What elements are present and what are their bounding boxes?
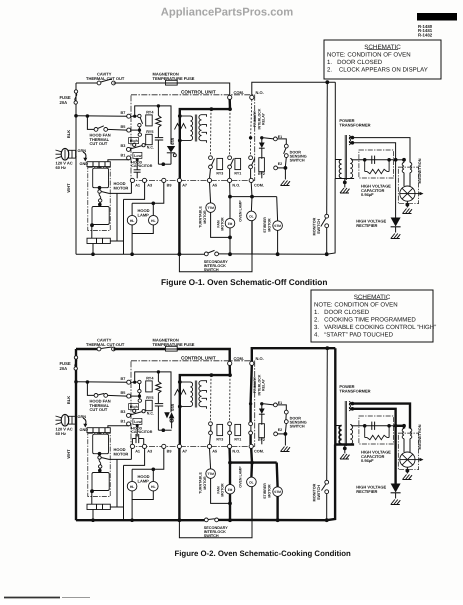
- wire O-2 TTM to FM column: [211, 478, 230, 503]
- terminal E2 O-2: [274, 432, 278, 436]
- pin B1 O-1: [127, 156, 131, 160]
- switch cavity thermal cut-out O-1: [97, 81, 101, 85]
- svg-text:B1: B1: [121, 154, 126, 158]
- label Low boxed O-2: [133, 418, 142, 424]
- svg-text:SWITCH: SWITCH: [317, 219, 321, 234]
- pin B5 O-2: [127, 394, 131, 398]
- svg-text:MOTOR: MOTOR: [114, 185, 129, 190]
- ground wire GRN arrow O-2: [83, 418, 86, 425]
- ground magnetron O-1: [403, 209, 413, 214]
- low voltage transformer primary O-2: [178, 380, 182, 384]
- resistor in control unit O-1: [157, 106, 159, 116]
- wire O-2 A7 heavy column below control unit: [178, 449, 180, 521]
- relay contact RY3 O-1: [209, 156, 213, 160]
- control unit box O-2: [131, 361, 255, 447]
- pin N.O. top O-1: [250, 95, 254, 99]
- svg-text:E2: E2: [278, 428, 282, 432]
- wire O-2 loop below bus to oven lamp: [179, 520, 252, 538]
- contact High selector O-1: [133, 143, 136, 146]
- wire O-1 filament second lead: [351, 141, 355, 145]
- scan artifact bottom edge line: [4, 597, 60, 599]
- svg-text:RELAY: RELAY: [262, 378, 266, 390]
- diode primary interlock O-2: [261, 404, 263, 409]
- wire O-1 drop to RY1 contact: [229, 109, 231, 156]
- magnetron dashed box O-1: [398, 167, 418, 204]
- wire O-1 to E1: [264, 138, 274, 139]
- wire O-1 right rail to power transformer: [334, 82, 336, 178]
- resistor in control unit O-2: [157, 372, 159, 382]
- ground chassis at E2 O-2: [281, 447, 291, 452]
- svg-text:SWITCH: SWITCH: [317, 485, 321, 500]
- ground magnetron O-2: [403, 475, 413, 480]
- relay coil RY3 small O-1: [217, 158, 223, 169]
- svg-text:1. DOOR CLOSED: 1. DOOR CLOSED: [314, 309, 370, 316]
- high voltage rectifier diode O-1: [391, 218, 401, 227]
- contact RY4 O-2: [138, 380, 141, 383]
- wire O-1 hood motor right lead: [110, 240, 123, 242]
- wire O-1 N.O. pin drop to RY2 contact: [251, 100, 252, 138]
- svg-text:OVEN LAMP: OVEN LAMP: [239, 200, 243, 222]
- svg-text:N.O.: N.O.: [232, 450, 240, 454]
- svg-text:20A: 20A: [60, 100, 68, 105]
- svg-text:TTM: TTM: [207, 472, 214, 476]
- wire O-2 N.O. to right rail: [252, 348, 335, 361]
- wire O-2 stirrer column: [276, 463, 279, 487]
- pin N.O. bottom O-1: [228, 178, 232, 182]
- svg-text:SWITCH: SWITCH: [204, 268, 219, 272]
- hood motor upper winding O-1: [99, 166, 101, 168]
- pin COM. bottom O-1: [249, 178, 253, 182]
- relay contact RY1 O-1: [228, 156, 232, 160]
- power transformer secondary coil O-1: [350, 159, 352, 179]
- wire O-1 STM to bus: [277, 230, 279, 254]
- wire O-1 resistor to capacitor: [157, 127, 159, 137]
- svg-text:RY3: RY3: [216, 172, 223, 176]
- pin A7 bottom O-1: [177, 178, 181, 182]
- magnetron tube O-1: [400, 186, 415, 201]
- svg-text:B7: B7: [121, 377, 126, 381]
- AC plug 120V O-1: [56, 150, 62, 152]
- svg-text:NOTE: CONDITION OF OVEN: NOTE: CONDITION OF OVEN: [327, 51, 411, 58]
- wire O-1 drop to RY3 contact: [210, 109, 213, 156]
- terminal block noise filter O-1: [87, 162, 110, 167]
- label Low boxed O-1: [133, 152, 142, 158]
- svg-text:CONTROL UNIT: CONTROL UNIT: [181, 90, 216, 95]
- power transformer secondary coil O-2: [350, 425, 352, 445]
- svg-text:RECTIFIER: RECTIFIER: [356, 223, 377, 228]
- transfer contact on B5 row O-2: [138, 389, 141, 392]
- svg-text:B7: B7: [121, 111, 126, 115]
- wire O-1 HV rectifier column: [395, 160, 397, 218]
- wire O-1 door switch to E2 node: [284, 158, 287, 167]
- wire RY1 contact to pin O-2: [229, 435, 231, 445]
- wire O-1 A3 drop to bus: [123, 199, 125, 254]
- svg-text:0.94µF: 0.94µF: [361, 458, 374, 463]
- pin B1 O-2: [127, 422, 131, 426]
- wire O-1 monitor switch column: [326, 82, 329, 214]
- stirrer motor STM O-1: [273, 221, 283, 231]
- low voltage transformer windings O-1: [180, 115, 191, 117]
- wire O-1 A5 column to turntable motor: [210, 183, 211, 203]
- svg-text:N.O.: N.O.: [256, 90, 264, 95]
- low voltage transformer secondary taps O-2: [202, 381, 207, 383]
- pin B7 O-1: [127, 114, 131, 118]
- svg-text:High: High: [130, 405, 138, 409]
- wire O-2 B1 to hood motor feed: [108, 426, 129, 428]
- wire O-2 to E1: [264, 404, 274, 405]
- wire O-1 heavy COM drop: [180, 100, 230, 179]
- relay coil RY5 O-2: [146, 400, 153, 410]
- wire O-1 monitor switch to bus: [326, 228, 328, 255]
- wire O-2 SSR gate return: [158, 429, 171, 431]
- wire O-2 A5 column to turntable motor: [210, 449, 211, 469]
- pin N.O. top O-2: [250, 361, 254, 365]
- wire O-2 hood fan to B5: [108, 394, 127, 397]
- switch hood fan thermal cut out O-2: [94, 394, 98, 398]
- wire O-2 E1 to door switch: [277, 405, 286, 410]
- svg-text:LAMP: LAMP: [138, 212, 150, 217]
- wire O-2 HL2 feed: [152, 469, 154, 481]
- wire O-1 E2 node to chassis: [284, 168, 286, 180]
- wire O-1 TTM to FM column: [211, 212, 230, 237]
- svg-text:STM: STM: [274, 490, 281, 494]
- schematic note box O-1: [324, 40, 441, 79]
- svg-text:60 Hz: 60 Hz: [56, 165, 66, 170]
- hood motor switch output lead to A1 O-2: [101, 458, 131, 460]
- wire O-2 internal top rail to SSR: [158, 372, 171, 410]
- hood motor dashed box O-2: [88, 433, 110, 496]
- svg-text:3. VARIABLE COOKING CONTROL: 3. VARIABLE COOKING CONTROL “HIGH”: [314, 324, 436, 331]
- terminal E1 O-1: [274, 137, 278, 141]
- capacitor hood capacitor O-1: [136, 160, 138, 170]
- svg-text:RY5: RY5: [146, 396, 153, 400]
- relay coil RY4 O-2: [146, 381, 153, 392]
- svg-text:B5: B5: [121, 125, 126, 129]
- svg-text:MOTOR: MOTOR: [267, 218, 271, 232]
- svg-text:RELAY: RELAY: [262, 112, 266, 124]
- svg-text:CAPACITOR: CAPACITOR: [131, 430, 152, 434]
- relay contact RY1 O-2: [228, 422, 232, 426]
- wire O-2 transformer bottom bar: [335, 443, 354, 445]
- SSR triac O-2: [164, 412, 170, 418]
- wire O-2 B7 row from rail: [76, 381, 127, 383]
- wire RY2 contact to pin O-2: [249, 435, 251, 445]
- svg-text:High: High: [130, 139, 138, 143]
- hood motor bottom lead O-1: [90, 223, 94, 227]
- resistor bleeder in HV box O-2: [364, 426, 366, 438]
- svg-text:OL: OL: [249, 481, 253, 485]
- wire O-1 stirrer column: [276, 197, 279, 221]
- svg-text:B3: B3: [121, 410, 126, 414]
- svg-text:60 Hz: 60 Hz: [56, 431, 66, 436]
- pin B5 O-1: [127, 128, 131, 132]
- pin A1 bottom O-1: [130, 178, 134, 182]
- wire O-2 filament top lead: [351, 402, 355, 406]
- wire O-1 transformer to bus: [327, 179, 335, 255]
- wire O-1 transformer bottom bar: [335, 178, 354, 180]
- hood lamp HL1 O-1: [127, 215, 137, 225]
- wire O-1 internal top rail to SSR: [158, 106, 171, 144]
- wire O-1 B5 pin to contact: [131, 129, 138, 131]
- wire O-1 motor top rail: [230, 196, 277, 198]
- wire O-2 filament second lead: [351, 407, 355, 411]
- svg-text:MAGNETRON: MAGNETRON: [418, 424, 422, 449]
- wire O-1 B3 to N.C. contact: [130, 145, 143, 149]
- power transformer primary coil O-2: [339, 426, 341, 445]
- wire O-2 resistor to capacitor: [157, 393, 159, 403]
- svg-text:0.94µF: 0.94µF: [361, 192, 374, 197]
- svg-text:A5: A5: [212, 184, 217, 188]
- svg-text:Low: Low: [134, 420, 141, 424]
- svg-text:R-1482: R-1482: [418, 33, 433, 38]
- svg-text:RY3: RY3: [216, 438, 223, 442]
- wire O-2 drop to RY3 contact: [210, 375, 213, 422]
- svg-text:WHT: WHT: [66, 183, 71, 193]
- SSR triac O-1: [167, 146, 175, 153]
- terminal E2 O-1: [274, 166, 278, 170]
- ground transformer O-1: [344, 182, 346, 187]
- svg-text:MOTOR: MOTOR: [221, 483, 225, 497]
- wire O-2 HV line secondary to capacitor box: [351, 425, 359, 427]
- wire RY3 contact to pin O-2: [210, 435, 211, 445]
- wire O-2 top line to cavity thermal cut-out: [76, 348, 99, 350]
- svg-text:A1: A1: [135, 450, 140, 454]
- wire O-1 magnetron cathode to ground: [406, 201, 408, 207]
- magnetron antenna arrow O-2: [415, 459, 423, 461]
- pin A1 bottom O-2: [130, 444, 134, 448]
- wire O-1 top line to cavity thermal cut-out: [76, 82, 99, 84]
- hood motor centrifugal switch O-2: [98, 452, 102, 456]
- ground transformer O-2: [344, 448, 346, 453]
- turntable motor TTM O-2: [206, 469, 216, 479]
- svg-text:MOTOR: MOTOR: [114, 451, 129, 456]
- svg-text:RECTIFIER: RECTIFIER: [356, 489, 377, 494]
- svg-text:HL: HL: [151, 219, 156, 223]
- capacitor in control unit O-1: [155, 137, 163, 139]
- svg-text:MOTOR: MOTOR: [221, 217, 225, 231]
- pin N.O. bottom O-2: [228, 444, 232, 448]
- svg-text:TRANSFORMER: TRANSFORMER: [339, 389, 370, 394]
- svg-text:2. CLOCK APPEARS ON DISPLAY: 2. CLOCK APPEARS ON DISPLAY: [327, 66, 428, 73]
- svg-text:A3: A3: [147, 450, 152, 454]
- ground HV rectifier O-2: [391, 500, 401, 505]
- wire O-1 hood motor to bus: [92, 244, 94, 255]
- wire O-2 N.O. column to fan motor: [228, 449, 231, 463]
- wire O-2 magnetron cathode to ground: [406, 467, 408, 473]
- wire O-1 A7 heavy column below control unit: [178, 183, 180, 255]
- svg-text:THERMAL CUT-OUT: THERMAL CUT-OUT: [86, 342, 125, 347]
- pin B9 bottom O-1: [162, 178, 166, 182]
- svg-text:SSR: SSR: [171, 403, 175, 411]
- wire O-1 HL2 feed: [152, 203, 154, 215]
- wire O-1 hood fan branch: [87, 116, 94, 129]
- wire O-1 FM to bus: [229, 228, 231, 254]
- svg-text:COM.: COM.: [234, 90, 244, 95]
- magnetron temperature fuse O-2: [166, 346, 178, 351]
- wire O-2 monitor switch to bus: [326, 494, 328, 521]
- wire RY2 contact to pin O-1: [250, 169, 252, 179]
- wire O-1 HL1 feed: [131, 203, 133, 215]
- svg-text:RY5: RY5: [146, 130, 153, 134]
- wire O-1 HV line to magnetron: [393, 159, 404, 161]
- ground HV rectifier O-1: [391, 234, 401, 239]
- wire O-1 B1 to hood motor feed: [108, 160, 129, 162]
- svg-text:HL: HL: [130, 485, 135, 489]
- magnetron dashed box O-2: [398, 433, 418, 470]
- wire O-2 door switch to E2 node: [284, 424, 287, 433]
- svg-text:B5: B5: [121, 391, 126, 395]
- pin B9 bottom O-2: [162, 444, 166, 448]
- svg-text:LAMP: LAMP: [138, 478, 150, 483]
- svg-text:COM.: COM.: [254, 450, 264, 454]
- oven lamp OL O-2: [247, 477, 257, 487]
- relay contact RY2 O-1: [249, 156, 253, 160]
- wire O-2 N.O. pin drop to RY2 contact: [251, 366, 252, 404]
- svg-text:SWITCH: SWITCH: [204, 534, 219, 538]
- svg-text:4. “START” PAD TOUCHED: 4. “START” PAD TOUCHED: [314, 331, 394, 338]
- hood motor lower winding O-2: [92, 473, 109, 491]
- svg-text:N.O.: N.O.: [256, 356, 264, 361]
- svg-text:SWITCH: SWITCH: [290, 159, 305, 163]
- hood motor lower winding O-1: [92, 207, 109, 225]
- hood lamp HL1 O-2: [127, 481, 137, 491]
- svg-text:SSR: SSR: [171, 137, 175, 145]
- control unit box O-1: [131, 95, 255, 181]
- wire O-2 bottom bus right: [219, 519, 327, 522]
- svg-text:MAGNETRON: MAGNETRON: [418, 158, 422, 183]
- wire O-2 HV line inside capacitor box: [359, 425, 394, 427]
- pin COM top O-2: [228, 361, 232, 365]
- hood motor centrifugal switch O-1: [98, 186, 102, 190]
- wire O-2 drop from switch lead to terminal bar: [116, 459, 118, 507]
- resistor bleeder in HV box O-1: [364, 160, 366, 172]
- power transformer primary coil O-1: [339, 160, 341, 179]
- capacitor HV 0.94uF O-2: [369, 425, 372, 427]
- switch cavity thermal cut-out O-2: [97, 347, 101, 351]
- wire O-2 lamp bottoms to bus: [132, 491, 153, 500]
- svg-text:N.C.: N.C.: [147, 411, 154, 415]
- svg-text:CUT OUT: CUT OUT: [90, 407, 108, 412]
- wire O-1 bottom bus right: [219, 253, 327, 255]
- pin COM top O-1: [228, 95, 232, 99]
- wire O-1 top line cut-out to fuse: [114, 82, 166, 84]
- turntable motor TTM O-1: [206, 203, 216, 213]
- wire RY2 coil bottom O-1: [261, 171, 263, 178]
- wire O-2 A3 column jog: [124, 449, 145, 466]
- wire O-2 drop to RY1 contact: [229, 375, 231, 422]
- relay coil RY3 small O-2: [217, 424, 223, 435]
- low voltage transformer primary O-1: [178, 114, 182, 118]
- relay coil RY2 O-2: [259, 424, 265, 438]
- wire O-1 left supply rail BLK: [75, 83, 77, 254]
- switch hood fan thermal cut out O-1: [94, 127, 98, 131]
- schematic note box O-2: [311, 290, 433, 342]
- door sensing switch O-1: [284, 144, 288, 148]
- hood motor dashed box O-1: [88, 167, 110, 230]
- oven lamp OL O-1: [247, 211, 257, 221]
- wire O-2 A3 drop to bus: [123, 465, 125, 520]
- svg-text:A7: A7: [182, 184, 187, 188]
- wire O-1 B9 column to lamp rail: [132, 183, 164, 204]
- hood motor switch output lead to A1 O-1: [101, 192, 131, 194]
- svg-text:A7: A7: [182, 450, 187, 454]
- pin A5 bottom O-1: [207, 178, 211, 182]
- wire O-2 motor top rail: [230, 461, 277, 463]
- wire O-1 SSR gate return: [158, 163, 171, 165]
- wire O-2 B9 column to lamp rail: [132, 449, 164, 470]
- svg-text:TEMPERATURE FUSE: TEMPERATURE FUSE: [153, 342, 195, 347]
- svg-text:E2: E2: [278, 162, 282, 166]
- svg-text:A5: A5: [212, 450, 217, 454]
- svg-text:RY1: RY1: [234, 172, 241, 176]
- relay coil RY5 O-1: [146, 134, 153, 144]
- fuse 20A O-1: [74, 90, 77, 93]
- hood motor bottom lead O-2: [90, 489, 94, 493]
- high voltage rectifier diode O-2: [391, 484, 401, 493]
- monitor switch O-2: [325, 480, 329, 484]
- relay coil RY1 small O-2: [235, 424, 241, 435]
- svg-text:Figure O-2. Oven Schematic-Coo: Figure O-2. Oven Schematic-Cooking Condi…: [175, 549, 352, 558]
- wire O-1 filament top lead: [351, 136, 355, 140]
- hood lamp HL2 O-2: [149, 481, 159, 491]
- svg-text:A1: A1: [135, 184, 140, 188]
- wire O-1 N.O. to right rail: [252, 82, 335, 95]
- svg-text:BLK: BLK: [66, 396, 71, 404]
- wire O-1 top line fuse to COM pin: [177, 83, 230, 95]
- power transformer filament winding O-1: [349, 136, 351, 145]
- svg-text:COM.: COM.: [234, 356, 244, 361]
- model number black bar: [417, 13, 457, 21]
- wire O-1 B7 row from rail: [76, 115, 127, 117]
- pin A3 bottom O-2: [142, 444, 146, 448]
- svg-text:RY4: RY4: [146, 111, 154, 115]
- hood motor upper winding O-2: [99, 432, 101, 434]
- AC plug 120V O-2: [56, 416, 62, 418]
- pin COM. bottom O-2: [249, 444, 253, 448]
- power transformer core O-2: [344, 401, 346, 446]
- fan motor FM O-2: [225, 484, 235, 494]
- pin A3 bottom O-1: [142, 178, 146, 182]
- relay coil RY4 O-1: [146, 115, 153, 126]
- svg-text:CAPACITOR: CAPACITOR: [131, 164, 152, 168]
- magnetron filament chokes O-1: [402, 162, 404, 172]
- svg-text:AppliancePartsPros.com: AppliancePartsPros.com: [161, 6, 293, 18]
- terminal E1 O-2: [274, 403, 278, 407]
- svg-text:HL: HL: [130, 219, 135, 223]
- terminal block noise filter O-2: [87, 428, 110, 433]
- svg-text:20A: 20A: [60, 366, 68, 371]
- diode primary interlock O-1: [261, 138, 263, 143]
- pin A5 bottom O-2: [207, 444, 211, 448]
- fuse 20A O-2: [74, 356, 77, 359]
- wire O-2 hood motor to bus: [92, 510, 94, 521]
- ground chassis at E2 O-1: [281, 181, 291, 186]
- wire O-2 B5 pin to contact: [131, 395, 138, 397]
- capacitor hood capacitor O-2: [136, 426, 138, 437]
- wire O-1 N.O. column to fan motor: [229, 183, 231, 197]
- wire O-2 FM to bus: [229, 494, 231, 520]
- svg-text:MOTOR: MOTOR: [203, 476, 207, 490]
- wire O-1 COM column to oven lamp: [250, 183, 253, 197]
- fan motor FM O-1: [225, 218, 235, 228]
- svg-text:OVEN LAMP: OVEN LAMP: [239, 466, 243, 488]
- wire O-1 A3 column jog: [124, 183, 145, 200]
- svg-text:CONTROL UNIT: CONTROL UNIT: [181, 356, 216, 361]
- hood motor terminal bar O-1: [87, 238, 110, 243]
- svg-text:SWITCH: SWITCH: [290, 425, 305, 429]
- hood lamp HL2 O-1: [149, 215, 159, 225]
- svg-text:GND: GND: [80, 162, 89, 166]
